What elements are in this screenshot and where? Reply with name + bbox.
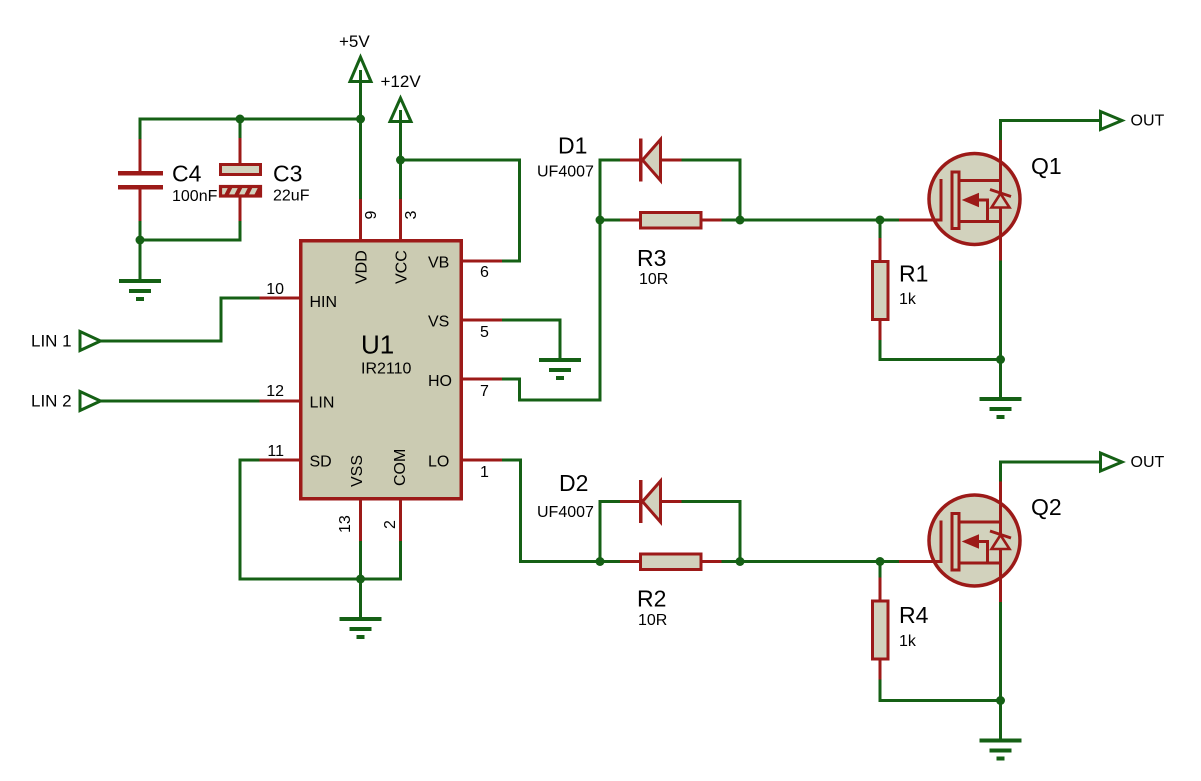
svg-text:1k: 1k: [899, 291, 917, 308]
svg-text:5: 5: [480, 324, 489, 341]
svg-text:Q1: Q1: [1031, 153, 1062, 179]
svg-text:+5V: +5V: [339, 32, 370, 51]
svg-text:VS: VS: [428, 314, 449, 331]
svg-text:HIN: HIN: [310, 294, 338, 311]
svg-text:6: 6: [480, 264, 489, 281]
svg-text:D1: D1: [558, 133, 587, 159]
svg-text:100nF: 100nF: [172, 188, 218, 205]
svg-text:R2: R2: [637, 586, 666, 612]
svg-text:+12V: +12V: [381, 72, 422, 91]
svg-text:LIN 2: LIN 2: [31, 392, 72, 411]
svg-text:1: 1: [480, 464, 489, 481]
svg-text:7: 7: [480, 383, 489, 400]
svg-text:U1: U1: [361, 330, 394, 360]
svg-text:R4: R4: [899, 602, 929, 628]
svg-text:SD: SD: [310, 454, 332, 471]
svg-text:9: 9: [363, 211, 380, 220]
svg-text:10: 10: [266, 281, 284, 298]
svg-text:C4: C4: [172, 161, 202, 187]
svg-text:10R: 10R: [639, 271, 668, 288]
svg-text:VSS: VSS: [349, 455, 366, 487]
svg-text:1k: 1k: [899, 633, 917, 650]
svg-text:12: 12: [266, 383, 284, 400]
svg-text:R3: R3: [637, 245, 666, 271]
svg-text:Q2: Q2: [1031, 494, 1062, 520]
svg-text:COM: COM: [392, 449, 409, 486]
svg-text:VDD: VDD: [354, 250, 371, 284]
svg-text:13: 13: [337, 515, 354, 533]
svg-text:LO: LO: [428, 454, 449, 471]
svg-text:3: 3: [403, 211, 420, 220]
svg-text:R1: R1: [899, 261, 928, 287]
svg-text:HO: HO: [428, 373, 452, 390]
svg-text:IR2110: IR2110: [361, 361, 412, 378]
svg-text:UF4007: UF4007: [537, 504, 594, 521]
svg-text:10R: 10R: [638, 612, 667, 629]
svg-text:11: 11: [267, 443, 284, 460]
svg-text:LIN 1: LIN 1: [31, 332, 72, 351]
svg-text:2: 2: [382, 520, 399, 529]
svg-text:LIN: LIN: [310, 395, 335, 412]
svg-text:VCC: VCC: [394, 250, 411, 284]
svg-text:C3: C3: [273, 161, 302, 187]
svg-text:UF4007: UF4007: [537, 164, 594, 181]
svg-text:OUT: OUT: [1131, 454, 1165, 471]
svg-text:22uF: 22uF: [273, 188, 310, 205]
svg-text:OUT: OUT: [1131, 113, 1165, 130]
svg-text:VB: VB: [428, 255, 449, 272]
svg-text:D2: D2: [559, 470, 588, 496]
